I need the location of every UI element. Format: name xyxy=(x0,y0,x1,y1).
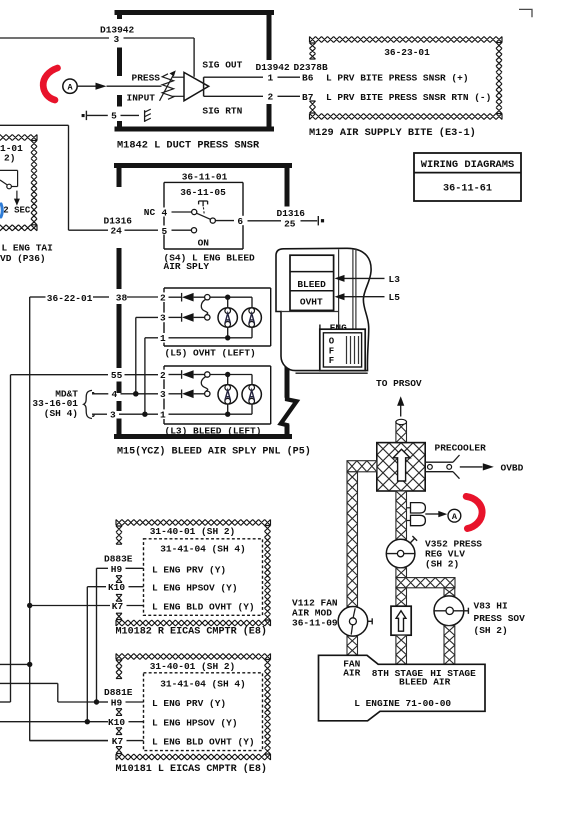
svg-text:TO PRSOV: TO PRSOV xyxy=(376,378,422,389)
svg-text:ON: ON xyxy=(198,238,210,249)
svg-text:2: 2 xyxy=(267,91,273,102)
svg-text:D2378B: D2378B xyxy=(294,62,329,73)
svg-text:M1842 L DUCT PRESS SNSR: M1842 L DUCT PRESS SNSR xyxy=(117,140,260,152)
svg-text:H9: H9 xyxy=(111,564,123,575)
svg-text:L ENG HPSOV (Y): L ENG HPSOV (Y) xyxy=(152,718,238,729)
svg-text:(SH 2): (SH 2) xyxy=(425,559,459,570)
svg-text:36-11-09: 36-11-09 xyxy=(292,617,338,628)
svg-text:V83 HI: V83 HI xyxy=(474,601,508,612)
svg-text:OVBD: OVBD xyxy=(501,462,524,473)
svg-text:INPUT: INPUT xyxy=(127,93,156,104)
svg-text:WIRING DIAGRAMS: WIRING DIAGRAMS xyxy=(421,159,515,171)
svg-text:PRESS: PRESS xyxy=(132,72,161,83)
svg-text:L ENG TAI: L ENG TAI xyxy=(2,242,53,253)
svg-text:VD (P36): VD (P36) xyxy=(0,253,46,264)
svg-text:24: 24 xyxy=(110,226,122,237)
svg-text:36-22-01: 36-22-01 xyxy=(47,293,93,304)
svg-text:M129 AIR SUPPLY BITE (E3-1): M129 AIR SUPPLY BITE (E3-1) xyxy=(309,127,476,139)
svg-text:5: 5 xyxy=(111,111,117,122)
svg-text:L ENG BLD OVHT (Y): L ENG BLD OVHT (Y) xyxy=(152,602,255,613)
svg-text:36-11-01: 36-11-01 xyxy=(182,172,228,183)
svg-text:H9: H9 xyxy=(111,698,123,709)
svg-text:D13942: D13942 xyxy=(256,62,291,73)
svg-text:OVHT: OVHT xyxy=(300,297,323,308)
svg-text:D1316: D1316 xyxy=(277,208,306,219)
svg-text:M15(YCZ) BLEED AIR SPLY PNL (: M15(YCZ) BLEED AIR SPLY PNL (P5) xyxy=(117,445,311,457)
svg-text:BLEED AIR: BLEED AIR xyxy=(399,677,451,688)
svg-text:SIG RTN: SIG RTN xyxy=(202,106,242,117)
svg-text:31-40-01 (SH 2): 31-40-01 (SH 2) xyxy=(150,526,236,537)
svg-text:M10181 L EICAS CMPTR (E8): M10181 L EICAS CMPTR (E8) xyxy=(116,763,267,775)
svg-text:K7: K7 xyxy=(112,736,124,747)
svg-text:AIR SPLY: AIR SPLY xyxy=(164,261,210,272)
svg-text:36-11-05: 36-11-05 xyxy=(180,187,226,198)
svg-text:36-23-01: 36-23-01 xyxy=(384,47,430,58)
svg-text:PRESS SOV: PRESS SOV xyxy=(474,613,526,624)
svg-text:M10182 R EICAS CMPTR (E8): M10182 R EICAS CMPTR (E8) xyxy=(116,626,267,638)
svg-text:K7: K7 xyxy=(112,601,124,612)
svg-text:(SH 4): (SH 4) xyxy=(44,408,78,419)
svg-text:L ENGINE 71-00-00: L ENGINE 71-00-00 xyxy=(354,698,451,709)
svg-text:BLEED: BLEED xyxy=(297,279,326,290)
svg-text:38: 38 xyxy=(116,292,128,303)
svg-text:(L3) BLEED (LEFT): (L3) BLEED (LEFT) xyxy=(165,426,262,437)
svg-text:6: 6 xyxy=(237,216,243,227)
svg-text:F: F xyxy=(329,356,334,366)
svg-text:3: 3 xyxy=(113,34,119,45)
svg-text:25: 25 xyxy=(284,219,296,230)
svg-text:A: A xyxy=(67,82,73,92)
svg-text:L3: L3 xyxy=(389,274,401,285)
svg-text:K10: K10 xyxy=(108,582,125,593)
svg-text:3: 3 xyxy=(110,410,116,421)
svg-text:1: 1 xyxy=(160,410,166,421)
svg-text:L ENG PRV (Y): L ENG PRV (Y) xyxy=(152,698,226,709)
svg-text:AIR: AIR xyxy=(343,667,360,678)
svg-text:2 SEC: 2 SEC xyxy=(3,206,31,216)
svg-text:55: 55 xyxy=(111,370,123,381)
svg-text:(SH 2): (SH 2) xyxy=(474,625,508,636)
svg-text:L5: L5 xyxy=(389,292,401,303)
svg-text:2): 2) xyxy=(4,152,15,163)
svg-text:2: 2 xyxy=(160,293,166,304)
svg-text:4: 4 xyxy=(111,389,117,400)
svg-text:2: 2 xyxy=(160,370,166,381)
svg-text:36-11-61: 36-11-61 xyxy=(443,184,492,195)
svg-text:B6: B6 xyxy=(302,73,314,84)
svg-text:5: 5 xyxy=(161,226,167,237)
svg-text:NC: NC xyxy=(144,207,156,218)
svg-text:F: F xyxy=(329,346,334,356)
svg-text:L PRV BITE PRESS SNSR RTN (-): L PRV BITE PRESS SNSR RTN (-) xyxy=(326,92,491,103)
svg-text:PRECOOLER: PRECOOLER xyxy=(435,442,487,453)
svg-text:L PRV BITE PRESS SNSR (+): L PRV BITE PRESS SNSR (+) xyxy=(326,73,469,84)
svg-text:O: O xyxy=(329,337,335,347)
svg-text:1: 1 xyxy=(267,72,273,83)
svg-text:L ENG HPSOV (Y): L ENG HPSOV (Y) xyxy=(152,583,238,594)
svg-text:L ENG BLD OVHT (Y): L ENG BLD OVHT (Y) xyxy=(152,737,255,748)
svg-text:SIG OUT: SIG OUT xyxy=(202,60,242,71)
svg-text:31-41-04 (SH 4): 31-41-04 (SH 4) xyxy=(160,543,246,554)
svg-text:31-41-04 (SH 4): 31-41-04 (SH 4) xyxy=(160,678,246,689)
svg-text:K10: K10 xyxy=(108,717,125,728)
svg-text:3: 3 xyxy=(160,389,166,400)
svg-text:3: 3 xyxy=(160,313,166,324)
svg-text:4: 4 xyxy=(161,207,167,218)
svg-text:A: A xyxy=(452,512,458,522)
svg-text:31-40-01 (SH 2): 31-40-01 (SH 2) xyxy=(150,661,236,672)
svg-text:1: 1 xyxy=(160,333,166,344)
svg-text:(L5) OVHT (LEFT): (L5) OVHT (LEFT) xyxy=(165,348,256,359)
svg-text:L ENG PRV (Y): L ENG PRV (Y) xyxy=(152,564,226,575)
svg-text:B7: B7 xyxy=(302,92,314,103)
